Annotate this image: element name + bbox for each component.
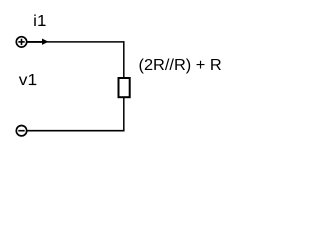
svg-text:(2R//R) + R: (2R//R) + R bbox=[139, 57, 222, 74]
label v1 bbox=[19, 72, 38, 89]
source negative terminal (circle with minus) bbox=[16, 126, 26, 136]
current arrow i1 bbox=[27, 39, 48, 45]
resistor box (2R//R)+R bbox=[119, 78, 130, 97]
wire bottom horizontal bbox=[27, 130, 124, 132]
svg-text:i1: i1 bbox=[33, 13, 46, 30]
wire top-right vertical down to resistor bbox=[123, 41, 125, 78]
wire top horizontal bbox=[44, 41, 124, 43]
label i1 bbox=[33, 13, 46, 30]
source positive terminal (circle with plus) bbox=[16, 37, 26, 47]
wire below resistor bbox=[123, 97, 125, 131]
svg-text:v1: v1 bbox=[19, 72, 38, 89]
